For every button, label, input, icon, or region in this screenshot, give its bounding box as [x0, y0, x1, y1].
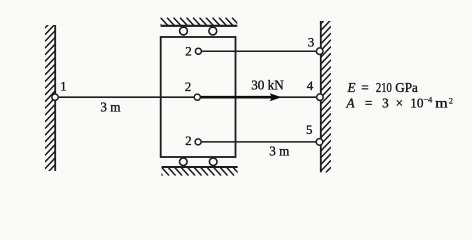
force arrow 30 kN — [200, 93, 282, 101]
floor support line — [162, 166, 238, 168]
svg-text:1: 1 — [60, 79, 67, 94]
svg-text:3 m: 3 m — [269, 144, 290, 159]
node 2 middle — [194, 94, 200, 100]
floor hatching — [155, 167, 241, 175]
node 2 top — [195, 48, 201, 54]
svg-text:2: 2 — [185, 79, 192, 94]
svg-text:3 m: 3 m — [100, 100, 121, 115]
left wall line — [54, 25, 56, 171]
top roller left — [180, 27, 188, 35]
node 1 — [52, 94, 58, 100]
bottom roller right — [209, 158, 217, 166]
node 2 bottom — [195, 139, 201, 145]
bar element 2-5 (bottom, 3 m) — [198, 141, 320, 143]
bar element 1-2 (middle, 3 m) — [55, 96, 320, 98]
svg-text:5: 5 — [306, 122, 313, 137]
node 4 — [317, 94, 324, 101]
bottom roller left — [180, 158, 188, 166]
node 3 — [316, 48, 323, 55]
svg-text:2: 2 — [185, 44, 192, 59]
svg-text:30 kN: 30 kN — [251, 77, 284, 92]
svg-text:2: 2 — [185, 133, 192, 148]
node 5 — [316, 139, 323, 146]
right wall line — [320, 21, 322, 172]
svg-text:4: 4 — [307, 78, 314, 93]
svg-text:3: 3 — [308, 34, 315, 49]
ceiling hatching — [154, 18, 240, 26]
left wall hatching — [45, 17, 55, 182]
ceiling support line — [161, 25, 238, 27]
right wall hatching — [321, 13, 331, 178]
bar element 2-3 (top) — [198, 50, 320, 52]
rigid block — [161, 37, 236, 157]
top roller right — [209, 27, 217, 35]
